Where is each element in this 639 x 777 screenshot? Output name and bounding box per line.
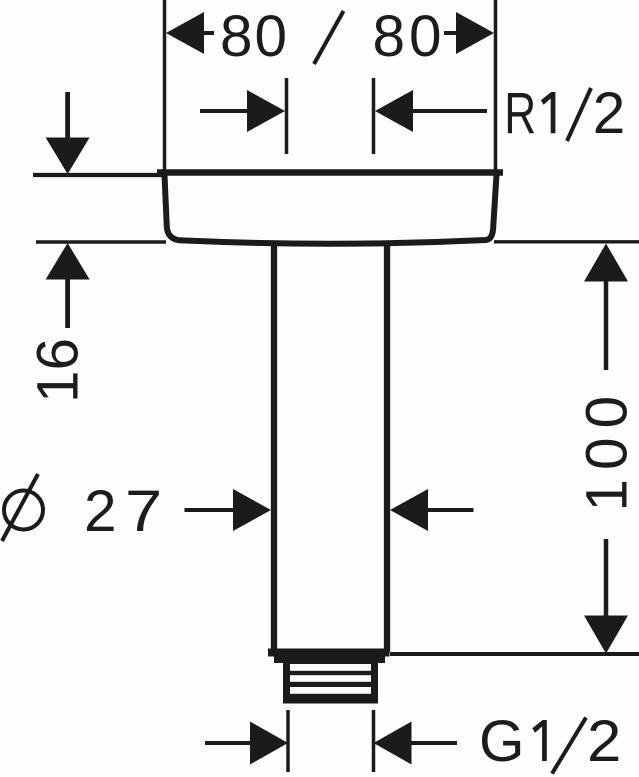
slash of R1/2 label	[567, 88, 591, 141]
dim 16 upper arrow body	[65, 92, 70, 139]
dim G1/2 left arrow line	[205, 741, 252, 745]
thread slot 3	[290, 687, 371, 694]
svg-text:2: 2	[593, 81, 628, 146]
diameter symbol slash	[2, 474, 38, 541]
ceiling line upper left	[33, 173, 162, 177]
dim 27 left arrowhead	[233, 489, 271, 531]
baseline right of pipe bottom	[390, 652, 639, 656]
thread slot 1	[290, 664, 371, 671]
diameter symbol circle	[4, 491, 43, 530]
dim 27 left arrow line	[185, 508, 238, 512]
svg-text:100: 100	[575, 387, 639, 512]
slash of 80/80 label	[314, 11, 344, 64]
label 1 of G1/2	[532, 720, 547, 761]
extension line right (80 dim)	[494, 0, 498, 170]
dim 100 bottom arrow body	[604, 539, 609, 617]
pipe wall right	[384, 241, 390, 652]
dim 27 right arrowhead	[390, 489, 428, 531]
svg-text:80: 80	[220, 4, 289, 69]
svg-text:G: G	[479, 709, 527, 774]
dim 80/80 right arrow stub	[444, 31, 458, 35]
svg-text:7: 7	[125, 479, 165, 544]
dim G1/2 right arrowhead	[374, 722, 412, 765]
dim 16 lower arrow body	[65, 278, 70, 328]
dim 100 top arrowhead	[584, 244, 628, 282]
dim 80/80 left arrowhead	[166, 12, 204, 54]
label 1 of R1/2	[541, 92, 556, 133]
dim 80/80 left arrow stub	[203, 31, 214, 35]
slash of G1/2 label	[552, 718, 586, 774]
pipe bottom edge band	[268, 649, 390, 657]
R1/2 left arrow line	[200, 109, 252, 113]
R1/2 right arrowhead	[375, 90, 413, 132]
R1/2 short extension line left	[285, 78, 289, 154]
ceiling line lower right	[494, 240, 639, 243]
dim 16 upper arrowhead	[46, 138, 90, 175]
svg-text:16: 16	[26, 338, 91, 403]
thread slot 2	[290, 675, 371, 682]
dim 100 bottom arrowhead	[584, 616, 628, 654]
flange top edge	[157, 169, 503, 176]
dim 80/80 right arrowhead	[456, 12, 494, 54]
dim G1/2 extension line right	[372, 710, 376, 772]
dim 16 lower arrowhead	[46, 243, 90, 280]
svg-text:2: 2	[587, 709, 624, 774]
R1/2 short extension line right	[372, 78, 376, 154]
R1/2 right arrow line	[410, 109, 487, 113]
svg-text:2: 2	[84, 479, 119, 544]
thread step band	[274, 657, 385, 664]
ceiling line lower left	[36, 240, 166, 243]
R1/2 left arrowhead	[247, 90, 285, 132]
flange body outline	[165, 175, 497, 244]
dim 100 top arrow body	[604, 280, 609, 370]
pipe wall left	[271, 241, 277, 652]
dim G1/2 right arrow line	[410, 741, 457, 745]
svg-text:80: 80	[373, 4, 446, 69]
thread block	[283, 663, 378, 704]
dim G1/2 extension line left	[286, 710, 290, 772]
dim 27 right arrow line	[426, 508, 474, 512]
svg-text:R: R	[504, 81, 537, 146]
extension line left (80 dim)	[163, 0, 167, 170]
dim G1/2 left arrowhead	[250, 722, 288, 765]
